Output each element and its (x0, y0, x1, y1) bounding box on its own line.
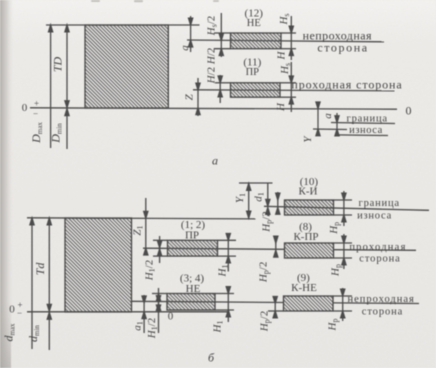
dimension Hp/2 left of K-I (276, 192, 280, 214)
dimension a (upper) (189, 16, 193, 52)
PR1 stub lines (153, 239, 168, 241)
dimension chain Hs/2 H/2 H/2 (219, 13, 223, 57)
wear limit line b (264, 206, 429, 210)
go side line b (143, 248, 416, 250)
gauge zone K-PR (8) (285, 243, 334, 258)
wear limit rule A (331, 123, 395, 124)
dimension H1/2 left of NE1 (156, 288, 160, 333)
gauge zone K-I (10) (285, 200, 334, 215)
dimension Hp right of K-I (342, 191, 346, 226)
tolerance zone TD (85, 25, 168, 108)
zero line figure a (30, 108, 397, 109)
dimension H/2 at PR (218, 75, 222, 103)
go side line a (193, 90, 395, 91)
wear level stub b (239, 182, 273, 184)
gauge zone PR (11) (231, 83, 281, 97)
K-I stub lines (334, 199, 353, 201)
dimension H1/2 left of PR1 (158, 236, 162, 263)
dimension Hs/H at PR right (289, 62, 293, 112)
dimension TD / Dmin (65, 25, 69, 149)
dimension a (wear) (335, 113, 339, 136)
Dmax level line (46, 24, 200, 26)
wear limit rule C (337, 134, 388, 137)
dimension Hp right of K-NE (341, 288, 345, 321)
dimension Z1 (144, 198, 148, 255)
gauge zone NE (12) (231, 33, 282, 49)
dimension Y1 (247, 183, 251, 218)
top edge crop artifacts (91, 0, 219, 2)
dimension H1 right of NE1 (226, 287, 230, 322)
dimension Hs/H at NE right (289, 16, 293, 60)
dimension dmax (30, 218, 34, 349)
NE1 stub lines (152, 293, 167, 295)
PR stub lines (215, 82, 231, 84)
K-PR stub lines (334, 242, 353, 244)
dimension Dmax (49, 25, 53, 148)
dimension H1 right of PR1 (226, 233, 230, 272)
dimension Hp/2 left of K-PR (274, 236, 278, 257)
gauge zone K-NE (9) (284, 296, 334, 311)
non-go side line a (187, 40, 384, 42)
dmax level line (27, 218, 256, 219)
dimension Td / dmin (47, 218, 51, 350)
gauge zone NE1 (3;4) (167, 294, 215, 311)
NE stub lines (214, 32, 231, 34)
tolerance zone Td (65, 218, 132, 312)
dimension Hp/2 left of K-NE (273, 296, 277, 318)
gauge zone PR1 (1;2) (168, 240, 218, 256)
wear limit stub B (313, 128, 347, 131)
dimension a1 (142, 295, 146, 333)
dimension Hp right of K-PR (342, 234, 346, 269)
dimension Z (196, 78, 200, 116)
dimension d1 (266, 183, 270, 216)
K-NE stub lines (333, 295, 352, 297)
zero line figure b (27, 311, 230, 313)
dimension Y (316, 102, 320, 136)
non-go side line b (132, 301, 419, 303)
